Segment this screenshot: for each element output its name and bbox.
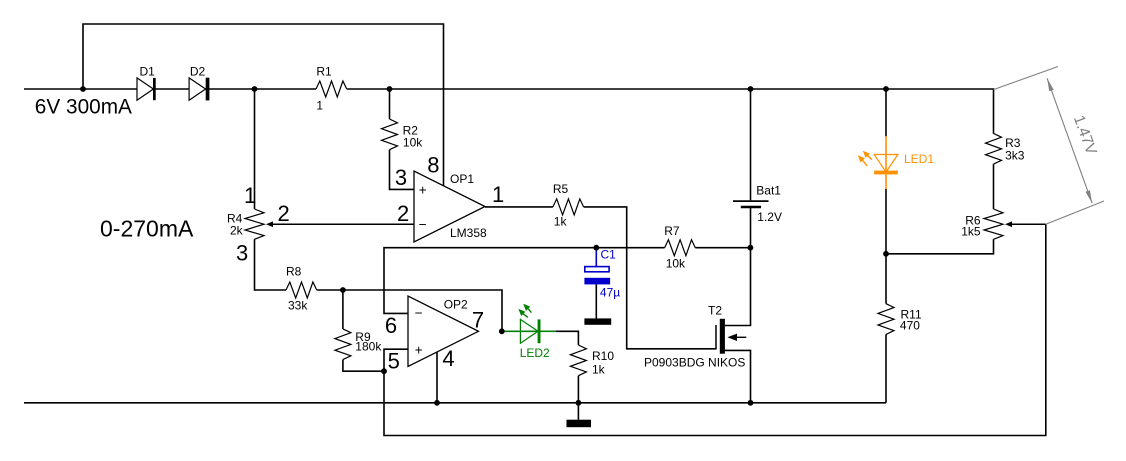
wire: OP2 pin 6 up and right to C1/R7 node xyxy=(384,248,665,314)
junction: OP2 pin5/R9 node xyxy=(381,368,387,374)
junction: D2 cathode node xyxy=(252,86,258,92)
svg-text:0-270mA: 0-270mA xyxy=(100,215,194,241)
junction: LED1/R6/R11 node xyxy=(883,251,889,257)
resistor R8 33k xyxy=(286,282,317,298)
wire: R11 to bottom rail corner xyxy=(885,334,887,402)
ground (below R10) xyxy=(567,420,592,428)
wire: node down to R11 xyxy=(885,254,887,304)
wire: R5 to T2 gate xyxy=(584,207,716,349)
svg-text:4: 4 xyxy=(442,346,454,371)
svg-text:2k: 2k xyxy=(230,224,244,238)
wire: C1 to ground xyxy=(595,284,597,318)
svg-text:OP1: OP1 xyxy=(450,172,474,186)
svg-text:+: + xyxy=(419,182,427,197)
svg-text:47µ: 47µ xyxy=(600,286,620,300)
wire: R6 wiper to right corner xyxy=(1012,223,1046,225)
potentiometer R6 1k5 xyxy=(984,209,1003,239)
wire: bottom rail xyxy=(24,402,886,404)
wire: supply rail down to R4 pin 1 xyxy=(254,89,256,209)
junction: supply/feedback node xyxy=(80,86,86,92)
svg-text:1.47V: 1.47V xyxy=(1070,113,1100,157)
junction: R10/ground node xyxy=(576,400,582,406)
voltage annotation 1.47V (dimension lines) xyxy=(994,67,1059,90)
junction: R8/R9 node xyxy=(340,287,346,293)
svg-text:LM358: LM358 xyxy=(450,226,487,240)
wire: OP2 pin 5 to R9 node xyxy=(384,349,408,371)
resistor R5 1k xyxy=(553,199,584,215)
wire: LED1 to R6/R11 node xyxy=(885,189,887,254)
svg-text:10k: 10k xyxy=(666,257,686,271)
op-amp OP1 LM358 xyxy=(414,171,485,242)
junction: C1 top node xyxy=(593,245,599,251)
op-amp OP2 LM358 xyxy=(408,296,479,367)
wire: R4 pin 3 down and right to R8 xyxy=(255,239,287,290)
wire: R6 bottom to LED1/R11 node xyxy=(886,239,994,254)
svg-text:R5: R5 xyxy=(553,182,569,196)
svg-text:3k3: 3k3 xyxy=(1005,149,1025,163)
svg-text:+: + xyxy=(415,343,423,358)
svg-text:1: 1 xyxy=(316,98,323,112)
transistor T2 P-MOSFET xyxy=(715,325,717,350)
svg-text:1: 1 xyxy=(244,183,256,208)
resistor R1 xyxy=(316,81,347,97)
junction: OP2 output node xyxy=(499,328,505,334)
svg-text:180k: 180k xyxy=(355,340,382,354)
resistor R11 470 xyxy=(878,304,894,335)
junction: battery minus node xyxy=(748,245,754,251)
svg-text:1k5: 1k5 xyxy=(961,225,981,239)
wire: R10 to bottom rail xyxy=(577,376,579,403)
wire: R8/R9 node down to R9 xyxy=(342,290,344,329)
svg-text:6V 300mA: 6V 300mA xyxy=(35,96,132,119)
svg-text:470: 470 xyxy=(900,318,920,332)
battery Bat1 1.2V xyxy=(750,89,752,200)
capacitor C1 47u electrolytic xyxy=(595,248,597,267)
svg-text:R7: R7 xyxy=(664,224,680,238)
junction: pin4/bottom rail xyxy=(434,400,440,406)
svg-text:1.2V: 1.2V xyxy=(757,210,782,224)
resistor R7 10k xyxy=(665,240,696,256)
svg-text:P0903BDG NIKOS: P0903BDG NIKOS xyxy=(644,356,745,370)
diode D1 xyxy=(137,78,153,100)
junction: R1/R2 node xyxy=(387,86,393,92)
junction: supply/LED1 node xyxy=(883,86,889,92)
potentiometer R4 2k xyxy=(245,209,264,239)
wire: T2 drain to battery node xyxy=(725,248,751,326)
wire: supply rail down to LED1 xyxy=(885,89,887,136)
LED LED1 (orange) xyxy=(874,155,898,173)
svg-text:R1: R1 xyxy=(316,65,332,79)
wire: main supply rail (right part) with corner down to R3 xyxy=(347,89,994,133)
wire: R3 top lead is rail corner; R3 body below xyxy=(993,132,995,135)
wire: pin5 node down and along bottom to R6 wiper xyxy=(384,224,1046,435)
svg-text:3: 3 xyxy=(395,165,407,190)
svg-text:D1: D1 xyxy=(140,65,156,79)
svg-text:10k: 10k xyxy=(403,136,423,150)
wire: R8 to OP2 feedback (down to OP2 output) xyxy=(317,290,502,331)
svg-text:8: 8 xyxy=(427,153,439,178)
resistor R3 3k3 xyxy=(986,133,1002,164)
svg-text:−: − xyxy=(419,217,427,232)
svg-text:R8: R8 xyxy=(286,265,302,279)
svg-text:−: − xyxy=(415,306,423,321)
svg-text:7: 7 xyxy=(472,308,484,333)
wire: R2 to OP1 pin 3 xyxy=(390,150,415,190)
wire: R9 to OP2 pin 5 node xyxy=(343,360,384,372)
R4 wiper arrow xyxy=(266,221,273,227)
resistor R2 xyxy=(382,119,398,150)
wire: supply rail to R2 xyxy=(389,89,391,119)
svg-text:D2: D2 xyxy=(190,65,206,79)
wire: feedback loop from input node up and over to OP1 pin 8 xyxy=(83,24,444,186)
svg-text:R10: R10 xyxy=(592,349,614,363)
svg-text:Bat1: Bat1 xyxy=(756,184,781,198)
resistor R10 1k xyxy=(570,345,586,376)
wire: OP1 output to R5 xyxy=(485,206,553,208)
svg-text:1: 1 xyxy=(492,182,504,207)
R6 wiper arrow xyxy=(1005,221,1012,227)
LED LED2 (green) xyxy=(520,319,538,343)
svg-text:2: 2 xyxy=(278,201,290,226)
junction: T2 source/bottom rail xyxy=(748,400,754,406)
resistor R9 180k xyxy=(335,329,351,360)
svg-text:1k: 1k xyxy=(554,215,568,229)
svg-text:5: 5 xyxy=(388,348,400,373)
svg-text:LED2: LED2 xyxy=(520,346,550,360)
wire: ground stub below bottom rail xyxy=(577,403,579,420)
svg-text:T2: T2 xyxy=(708,304,722,318)
svg-text:1k: 1k xyxy=(592,363,606,377)
svg-text:C1: C1 xyxy=(601,248,617,262)
wire: main 6V supply rail (left part) xyxy=(24,88,316,90)
wire: OP2 pin 4 to bottom rail xyxy=(436,352,438,403)
wire: R7 to battery node xyxy=(695,247,750,249)
svg-text:2: 2 xyxy=(397,201,409,226)
wire: T2 source to bottom rail xyxy=(725,350,751,402)
ground (below C1) xyxy=(584,318,611,324)
wire: R3 to R6 xyxy=(993,164,995,209)
wire: R4 wiper to OP1 pin 2 xyxy=(273,223,415,225)
svg-text:3: 3 xyxy=(236,241,248,266)
svg-text:LED1: LED1 xyxy=(904,152,934,166)
svg-text:OP2: OP2 xyxy=(444,298,468,312)
wire: LED2 to R10 xyxy=(556,331,579,345)
junction: supply/battery node xyxy=(748,86,754,92)
svg-text:6: 6 xyxy=(385,313,397,338)
svg-text:33k: 33k xyxy=(288,299,308,313)
diode D2 xyxy=(189,78,206,100)
